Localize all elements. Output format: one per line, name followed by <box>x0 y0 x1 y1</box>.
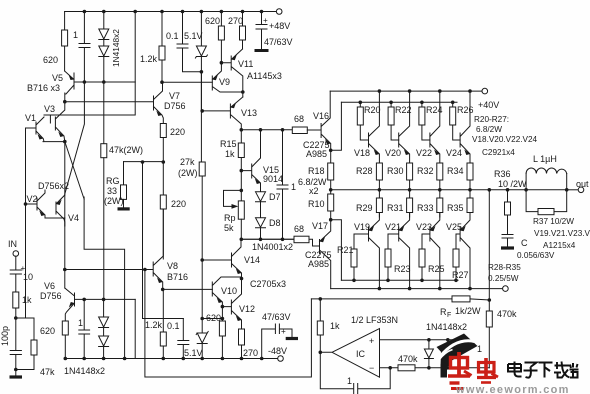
wire V9 base line <box>162 81 212 83</box>
svg-text:R20-R27:: R20-R27: <box>474 115 509 124</box>
svg-text:0.1: 0.1 <box>167 321 180 331</box>
svg-text:V11: V11 <box>238 59 253 69</box>
resistor R37 damping <box>526 190 567 212</box>
svg-text:(2W): (2W) <box>104 196 124 206</box>
resistor 620 bottom-left <box>62 321 68 335</box>
capacitor 1 top-left <box>79 12 90 83</box>
watermark chinese site name dian <box>508 362 522 377</box>
svg-text:V24: V24 <box>446 148 462 158</box>
transistor V14 C2705 npn <box>202 239 241 278</box>
svg-text:B716: B716 <box>167 272 188 282</box>
svg-text:D8: D8 <box>269 218 281 228</box>
resistor R32 <box>437 163 443 180</box>
svg-text:IC: IC <box>356 349 366 359</box>
resistor 220 lower <box>162 162 164 195</box>
svg-text:R35: R35 <box>447 203 464 213</box>
wire input node to V1/V2 bases riser <box>16 128 34 318</box>
wire bias rail y239.3 <box>241 238 294 240</box>
node V11 base node <box>220 61 224 65</box>
svg-text:470k: 470k <box>398 354 418 364</box>
transistor V4 <box>56 195 65 226</box>
resistor R27 <box>453 249 459 267</box>
node V17 emitter <box>329 218 333 222</box>
svg-text:F: F <box>447 312 451 319</box>
svg-text:V2: V2 <box>27 194 38 204</box>
node input node <box>14 316 18 320</box>
diode D8 <box>256 218 266 228</box>
svg-text:10: 10 <box>23 272 33 282</box>
svg-text:L 1µH: L 1µH <box>533 154 557 164</box>
transistor V2 <box>26 190 65 218</box>
node V12 base <box>221 305 225 309</box>
resistor 1k opamp <box>319 299 321 321</box>
node V14 emitter node <box>240 277 244 281</box>
svg-text:R29: R29 <box>356 203 373 213</box>
svg-text:1: 1 <box>73 30 78 40</box>
ground RG <box>118 207 130 210</box>
wire feedback to input via bottom <box>145 270 312 378</box>
node y130 line <box>240 128 244 132</box>
wire opamp plus line <box>380 339 468 341</box>
node rail junction dots <box>83 10 87 14</box>
svg-text:R20: R20 <box>364 105 381 115</box>
svg-text:x2: x2 <box>309 186 319 196</box>
inductor L 1uH <box>526 174 567 190</box>
svg-text:R22: R22 <box>395 105 412 115</box>
svg-text:B716 x3: B716 x3 <box>27 83 60 93</box>
transistor V3 <box>50 102 64 142</box>
wire V16 emitter to upper base bus riser <box>331 102 342 150</box>
wire V13 emitter node line y130 <box>241 129 292 131</box>
transistor V11 A1145 pnp <box>221 49 242 97</box>
svg-text:Rp: Rp <box>224 213 236 223</box>
svg-text:R10: R10 <box>308 199 325 209</box>
svg-text:IN: IN <box>8 239 17 249</box>
wire RG top to y162 node <box>124 161 164 163</box>
svg-text:33: 33 <box>107 186 117 196</box>
resistor 270 V12 emitter <box>239 329 245 345</box>
svg-text:V9: V9 <box>219 77 230 87</box>
svg-text:68: 68 <box>294 224 304 234</box>
node R15 bottom V15 base <box>240 169 244 173</box>
wire output mid bus <box>331 189 567 191</box>
svg-text:5k: 5k <box>224 223 234 233</box>
zener 5.1V bottom <box>197 333 207 343</box>
svg-text:V4: V4 <box>68 213 79 223</box>
terminal -48V <box>278 356 284 362</box>
resistor 68 bottom <box>294 236 309 243</box>
svg-text:1k/2W: 1k/2W <box>455 306 481 316</box>
node diff pair tail <box>63 140 67 144</box>
svg-text:620: 620 <box>40 326 55 336</box>
transistor V20 <box>399 91 410 163</box>
capacitor 1 mid <box>277 130 288 240</box>
svg-text:R31: R31 <box>387 203 404 213</box>
diode clamp 2 <box>447 340 449 350</box>
svg-text:R21: R21 <box>337 245 354 255</box>
transistor V23 <box>422 213 440 289</box>
svg-text:www.eeworm.com: www.eeworm.com <box>455 384 570 394</box>
transistor V10 <box>212 277 241 307</box>
svg-text:1k: 1k <box>225 149 235 159</box>
transistor V1 <box>26 117 65 142</box>
svg-text:V21: V21 <box>385 222 401 232</box>
node 1.2k bottom / V9 base feed <box>160 80 164 84</box>
svg-text:1.2k: 1.2k <box>145 320 163 330</box>
svg-text:+40V: +40V <box>478 100 499 110</box>
svg-text:R37 10/2W: R37 10/2W <box>533 217 574 226</box>
node out junction <box>565 188 569 192</box>
node mid bus left end <box>329 188 333 192</box>
svg-text:6.8/2W: 6.8/2W <box>476 125 502 134</box>
transistor V17 C2275 pnp <box>320 220 331 289</box>
transistor V21 <box>388 213 410 289</box>
wire opamp minus line <box>380 367 490 369</box>
node V16 emitter <box>329 149 333 153</box>
svg-text:5.1V: 5.1V <box>184 348 203 358</box>
wire V8 emitter to V10 base <box>163 288 213 290</box>
wire Rf line y298.9 <box>311 298 452 300</box>
wire top +48V rail <box>65 11 262 13</box>
svg-text:V3: V3 <box>44 104 55 114</box>
svg-text:1k: 1k <box>22 295 32 305</box>
svg-text:C2705x3: C2705x3 <box>250 279 286 289</box>
transistor V5 B716 pnp <box>65 71 74 102</box>
resistor R22 <box>390 102 392 107</box>
capacitor C 0.056/63V <box>502 235 513 248</box>
terminal out <box>567 189 578 191</box>
transistor V24 <box>460 91 470 163</box>
resistor R10 <box>330 190 332 194</box>
svg-text:D756: D756 <box>40 291 62 301</box>
capacitor 1 bottom-left <box>79 299 90 358</box>
watermark chinese site name zai <box>554 362 570 379</box>
svg-text:100p: 100p <box>0 326 10 346</box>
wire bottom -48V rail <box>65 358 277 360</box>
wire V5 base bus y82 <box>74 81 135 83</box>
node V3 collector / V7 base junction <box>63 100 67 104</box>
svg-text:47/63V: 47/63V <box>262 312 291 322</box>
svg-text:V8: V8 <box>167 261 178 271</box>
svg-text:D756: D756 <box>164 101 186 111</box>
wire y318.5 junction line <box>202 318 222 320</box>
transistor V16 C2275 <box>314 91 331 150</box>
transistor V12 <box>222 279 241 330</box>
svg-text:1: 1 <box>78 318 83 328</box>
svg-text:5.1V: 5.1V <box>184 31 203 41</box>
transistor V25 <box>456 213 470 289</box>
svg-text:R28-R35: R28-R35 <box>488 263 521 272</box>
resistor 68 top <box>292 127 307 134</box>
svg-text:V5: V5 <box>52 73 63 83</box>
ground 47/63V bottom <box>286 337 298 340</box>
wire spine x202 upper <box>200 72 202 162</box>
resistor 1.2k top <box>161 12 163 47</box>
terminal R28-R35 note <box>503 286 509 292</box>
capacitor 0.1 top <box>177 12 201 72</box>
watermark red bug char 1 <box>448 352 472 389</box>
svg-text:V17: V17 <box>312 221 328 231</box>
svg-text:620: 620 <box>206 313 221 323</box>
resistor 27k(2W) <box>199 162 205 176</box>
svg-text:V19: V19 <box>354 222 370 232</box>
svg-text:(2W): (2W) <box>178 168 198 178</box>
svg-text:270: 270 <box>228 16 243 26</box>
svg-text:+48V: +48V <box>269 21 290 31</box>
resistor R18 <box>330 150 332 163</box>
svg-text:V10: V10 <box>221 286 237 296</box>
ground input <box>15 370 17 377</box>
terminal +48V <box>262 11 277 13</box>
svg-text:V14: V14 <box>244 255 260 265</box>
wire cross diagonal 2 <box>65 82 85 194</box>
wire x142.5 down to 0.1 cap corner <box>143 162 184 319</box>
resistor R29 <box>376 198 382 213</box>
resistor R34 <box>467 163 473 180</box>
svg-text:R26: R26 <box>457 105 474 115</box>
resistor 270 top <box>242 12 244 27</box>
svg-text:R25: R25 <box>428 264 445 274</box>
svg-text:V7: V7 <box>169 91 180 101</box>
svg-text:R36: R36 <box>494 169 511 179</box>
resistor R23 <box>385 249 391 267</box>
svg-text:R33: R33 <box>417 203 434 213</box>
svg-text:D756x2: D756x2 <box>38 181 69 191</box>
transistor V19 <box>354 213 379 289</box>
transistor V15 9014 <box>241 130 260 192</box>
node opamp input node <box>319 351 323 355</box>
svg-text:10 /2W: 10 /2W <box>498 179 527 189</box>
svg-text:V18.V20.V22.V24: V18.V20.V22.V24 <box>472 135 538 144</box>
svg-text:V1: V1 <box>25 113 36 123</box>
svg-text:V12: V12 <box>239 304 255 314</box>
resistor R31 <box>407 198 413 213</box>
svg-text:V6: V6 <box>44 281 55 291</box>
svg-text:1N4148x2: 1N4148x2 <box>64 366 105 376</box>
watermark graduation cap black <box>437 334 478 378</box>
wire x135 from rail to base bus to y115 corner <box>44 12 135 116</box>
capacitor 0.1 bottom <box>178 319 189 359</box>
wire Rp loop <box>224 190 242 206</box>
resistor R25 <box>419 249 425 267</box>
diode 1N4148x2 top pair <box>103 12 105 83</box>
resistor R33 <box>437 198 443 213</box>
svg-text:1.2k: 1.2k <box>140 54 158 64</box>
wire 470k vertical from Rf node <box>488 300 490 311</box>
transistor V9 A1145 pnp <box>212 63 243 92</box>
wire upper collector bus +40V <box>330 90 482 92</box>
svg-text:RG: RG <box>106 176 120 186</box>
svg-text:V25: V25 <box>446 222 462 232</box>
transistor V8 B716 <box>65 209 164 289</box>
svg-text:620: 620 <box>43 55 58 65</box>
terminal +40V <box>482 88 488 94</box>
resistor R36 zobel <box>507 190 509 202</box>
svg-text:0.1: 0.1 <box>166 31 179 41</box>
svg-text:C: C <box>521 238 528 248</box>
resistor 47k input shunt <box>33 318 35 340</box>
svg-text:+: + <box>369 336 374 346</box>
wire lower collector bus -40V <box>331 288 502 290</box>
resistor Rp 5k pot <box>240 171 242 201</box>
resistor R24 <box>421 102 423 107</box>
capacitor 1 opamp feedback <box>320 352 390 393</box>
resistor R15 1k <box>240 130 242 143</box>
svg-text:47k: 47k <box>40 367 55 377</box>
svg-text:47/63V: 47/63V <box>264 37 293 47</box>
svg-text:out: out <box>576 179 589 189</box>
svg-text:270: 270 <box>243 348 258 358</box>
wire V17 emitter to lower base bus riser <box>331 220 342 281</box>
svg-text:1/2 LF353N: 1/2 LF353N <box>351 315 398 325</box>
resistor Rf 1k/2W <box>452 296 470 302</box>
svg-text:R27: R27 <box>452 270 469 280</box>
svg-text:A1215x4: A1215x4 <box>543 241 576 250</box>
svg-text:0.25/5W: 0.25/5W <box>488 274 519 283</box>
node ground node <box>14 368 18 372</box>
transistor V7 D756 <box>65 82 164 123</box>
svg-text:R18: R18 <box>308 166 325 176</box>
svg-text:1N4148x2: 1N4148x2 <box>111 29 121 67</box>
svg-text:+: + <box>281 327 286 336</box>
resistor 1.2k bottom <box>162 289 164 332</box>
resistor 220 upper <box>160 124 166 138</box>
svg-text:V23: V23 <box>416 222 432 232</box>
svg-text:220: 220 <box>171 199 186 209</box>
ground bar below top cap <box>255 49 269 52</box>
svg-text:A985: A985 <box>308 259 329 269</box>
svg-text:-48V: -48V <box>268 346 287 356</box>
wire tail down to V6 collector <box>64 142 66 288</box>
svg-text:1: 1 <box>291 182 296 192</box>
transistor V13 pnp <box>202 97 243 130</box>
svg-text:R28: R28 <box>356 166 373 176</box>
svg-text:620: 620 <box>205 16 220 26</box>
resistor R28 <box>376 163 382 180</box>
resistor 620 top-left <box>64 12 66 31</box>
svg-text:V19.V21.V23.V25: V19.V21.V23.V25 <box>534 229 590 238</box>
wire spine to bottom rail <box>201 319 203 334</box>
svg-text:68: 68 <box>294 114 304 124</box>
node V8 emitter <box>161 288 165 292</box>
svg-text:V16: V16 <box>313 111 329 121</box>
svg-text:R30: R30 <box>387 166 404 176</box>
wire x135 base bus down to bottom rail <box>134 299 136 358</box>
svg-text:R23: R23 <box>394 264 411 274</box>
watermark red bug char 2 <box>477 358 498 383</box>
wire V6 base bus y299.4 <box>75 298 136 300</box>
svg-text:−: − <box>369 363 374 373</box>
svg-text:C2921x4: C2921x4 <box>482 148 515 157</box>
svg-text:A1145x3: A1145x3 <box>247 71 282 81</box>
diode D7 <box>256 192 266 202</box>
wire upper base bus <box>341 101 457 103</box>
svg-text:0.056/63V: 0.056/63V <box>517 251 555 260</box>
svg-text:R15: R15 <box>220 139 237 149</box>
resistor R35 <box>467 198 473 213</box>
transistor V22 <box>430 91 440 163</box>
node compound collector node <box>241 90 245 94</box>
op-amp U1 1/2 LF353N <box>320 329 379 378</box>
watermark chinese site name xia <box>539 363 553 378</box>
svg-text:1: 1 <box>477 344 482 354</box>
resistor R30 <box>407 163 413 180</box>
diode 1N4148x2 bottom pair <box>103 299 105 358</box>
zener 5.1V top <box>200 12 202 47</box>
resistor 1k input <box>13 292 19 308</box>
capacitor 100p <box>10 318 21 370</box>
capacitor 47/63V top electrolytic <box>256 12 267 51</box>
wire V2/V4 tail x84 down and over to x124.6 down to rail <box>84 197 125 359</box>
svg-text:1: 1 <box>347 376 352 386</box>
capacitor 47/63V bottom electrolytic <box>262 324 292 359</box>
node Rf junction <box>488 298 492 302</box>
watermark chinese site name zi <box>524 363 538 378</box>
resistor 620 top second <box>220 12 222 27</box>
svg-text:1N4001x2: 1N4001x2 <box>252 242 293 252</box>
wire cross diagonal 1 <box>65 142 84 199</box>
resistor R26 <box>452 102 454 107</box>
svg-text:V20: V20 <box>385 148 401 158</box>
svg-text:R: R <box>440 307 447 317</box>
watermark chinese site name zhan <box>570 363 579 378</box>
resistor R21 <box>351 249 357 267</box>
wire feedback riser x489 <box>488 190 490 300</box>
svg-text:R32: R32 <box>417 166 434 176</box>
svg-text:D7: D7 <box>269 192 281 202</box>
svg-text:A985: A985 <box>306 149 327 159</box>
capacitor 10u input electrolytic <box>10 256 21 292</box>
svg-text:9014: 9014 <box>263 174 283 184</box>
resistor R20 <box>359 102 361 107</box>
transistor V6 D756 pnp <box>65 288 75 321</box>
svg-text:+: + <box>263 16 268 25</box>
svg-text:47k(2W): 47k(2W) <box>109 145 143 155</box>
svg-text:V22: V22 <box>416 148 432 158</box>
svg-text:V13: V13 <box>241 108 257 118</box>
diode clamp 1 <box>428 340 430 349</box>
ground zobel <box>501 246 514 249</box>
resistor 620 V10 emitter <box>221 307 223 321</box>
svg-text:V18: V18 <box>354 148 370 158</box>
svg-text:470k: 470k <box>497 309 517 319</box>
svg-text:1N4148x2: 1N4148x2 <box>426 322 467 332</box>
resistor 470k horizontal <box>398 365 415 371</box>
svg-text:R34: R34 <box>447 166 464 176</box>
svg-text:27k: 27k <box>180 157 195 167</box>
wire lower base bus <box>341 279 458 281</box>
resistor RG 33(2W) <box>123 162 125 185</box>
svg-text:220: 220 <box>170 127 185 137</box>
svg-text:1k: 1k <box>330 321 340 331</box>
transistor V18 <box>369 91 380 163</box>
resistor 47k(2W) <box>103 82 105 144</box>
